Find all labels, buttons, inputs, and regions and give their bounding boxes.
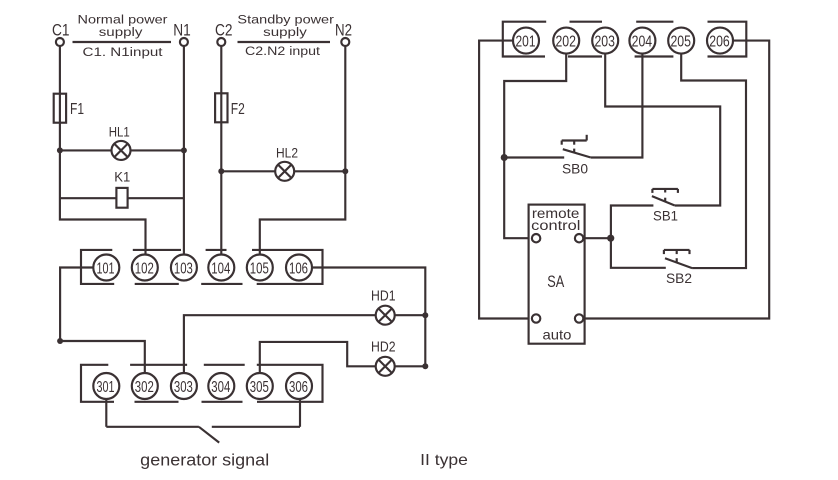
wire N2 drop	[260, 46, 346, 255]
generator signal pointer	[199, 427, 219, 443]
junction dot C2-HL2	[218, 168, 224, 174]
svg-text:HD1: HD1	[371, 288, 396, 304]
wire 101 to 302	[60, 268, 145, 374]
svg-text:103: 103	[174, 260, 193, 277]
junction dot N1-HL1	[181, 147, 187, 153]
terminal 306	[286, 373, 312, 399]
generator signal bracket left	[106, 426, 199, 428]
wire 203 to SB1 right	[605, 54, 720, 206]
svg-text:206: 206	[709, 34, 730, 51]
wire SB2 left	[611, 238, 666, 268]
junction dot N2-HL2	[342, 168, 348, 174]
svg-text:102: 102	[135, 260, 154, 277]
svg-text:N1: N1	[173, 22, 191, 40]
junction dot SA-SB1	[607, 235, 614, 242]
svg-text:305: 305	[250, 379, 269, 396]
wire 301 drop	[105, 399, 107, 427]
wire HL2 branch	[221, 170, 345, 172]
svg-text:N2: N2	[335, 22, 352, 40]
SA terminal remote-right	[575, 234, 583, 242]
wire SB0 right to 204	[591, 54, 643, 158]
terminal 201	[513, 28, 539, 54]
Standby power supply annotation	[237, 12, 334, 58]
svg-text:control: control	[531, 218, 580, 233]
svg-text:SB2: SB2	[666, 270, 692, 286]
svg-text:K1: K1	[114, 168, 130, 184]
wire 206 to SA auto-right	[583, 41, 769, 319]
pushbutton SB0	[562, 135, 591, 177]
svg-text:204: 204	[632, 34, 653, 51]
svg-text:supply: supply	[99, 25, 144, 39]
svg-text:101: 101	[97, 260, 115, 277]
junction dot C1-HL1	[57, 147, 63, 153]
terminal 101	[93, 255, 119, 281]
svg-text:202: 202	[555, 34, 576, 51]
lamp HD2	[371, 340, 396, 376]
terminal 304	[208, 373, 234, 399]
terminal 303	[171, 373, 197, 399]
selector switch SA box	[529, 205, 585, 344]
wire 305 to HD2	[260, 342, 426, 374]
terminal 103	[171, 255, 197, 281]
terminal 102	[132, 255, 158, 281]
svg-text:auto: auto	[543, 327, 572, 343]
junction dot HD2 riser	[422, 363, 428, 369]
lamp HD1	[371, 288, 396, 324]
terminal strip 201-206 frame	[503, 22, 747, 57]
generator signal bracket right	[212, 426, 300, 428]
relay coil K1	[114, 168, 130, 207]
pushbutton SB2	[664, 250, 692, 286]
wire 202 to SA remote	[504, 54, 566, 239]
svg-text:205: 205	[670, 34, 691, 51]
svg-text:302: 302	[135, 379, 154, 396]
wire 303 to HD1	[184, 315, 425, 373]
SA terminal auto-left	[532, 314, 540, 322]
svg-text:304: 304	[211, 379, 230, 396]
wire 106 to HD riser	[312, 268, 425, 367]
lamp HL2	[275, 144, 298, 181]
wire N1 drop	[183, 46, 185, 255]
terminal 104	[208, 255, 234, 281]
wire HL1 branch	[60, 149, 184, 151]
svg-text:supply: supply	[263, 25, 308, 39]
wire 306 drop	[299, 399, 301, 427]
svg-text:201: 201	[516, 34, 536, 51]
svg-text:C2: C2	[215, 22, 233, 40]
terminal 305	[247, 373, 273, 399]
terminal 202	[553, 28, 579, 54]
svg-text:HL2: HL2	[276, 144, 298, 160]
terminal C1	[56, 38, 64, 46]
wire SA remote-right to dot	[583, 237, 611, 239]
terminal strip 101-106 frame	[81, 250, 323, 284]
wire SB0 left	[504, 156, 564, 158]
svg-text:105: 105	[250, 260, 269, 277]
lamp HL1	[109, 123, 131, 160]
svg-text:generator signal: generator signal	[140, 451, 269, 469]
fuse F2	[215, 93, 227, 122]
terminal 203	[592, 28, 618, 54]
fuse F1	[54, 94, 66, 123]
wire SB2 right to 205	[681, 54, 746, 269]
svg-text:306: 306	[289, 379, 308, 396]
terminal 204	[629, 28, 655, 54]
wire K1 branch	[60, 197, 184, 199]
terminal 302	[132, 373, 158, 399]
svg-text:F1: F1	[70, 101, 84, 118]
terminal 301	[93, 373, 119, 399]
terminal 105	[247, 255, 273, 281]
terminal 206	[707, 28, 733, 54]
svg-text:203: 203	[594, 34, 615, 51]
wire SB1 left	[611, 206, 654, 239]
svg-text:104: 104	[211, 260, 230, 277]
terminal strip 301-306 frame	[81, 365, 323, 402]
svg-text:HL1: HL1	[109, 123, 130, 139]
svg-text:SB1: SB1	[653, 208, 678, 224]
junction dot SB0	[501, 154, 508, 161]
svg-text:C2.N2 input: C2.N2 input	[245, 44, 321, 58]
terminal 205	[668, 28, 694, 54]
pushbutton SB1	[652, 189, 678, 224]
svg-text:301: 301	[97, 379, 115, 396]
junction dot 101 wire corner	[57, 338, 63, 344]
wire 201 to SA auto	[479, 41, 532, 319]
svg-text:SB0: SB0	[562, 160, 588, 176]
svg-text:C1. N1input: C1. N1input	[83, 45, 164, 59]
svg-text:106: 106	[289, 260, 308, 277]
SA terminal auto-right	[575, 314, 583, 322]
terminal N1	[180, 38, 188, 46]
SA terminal remote-left	[532, 234, 540, 242]
terminal 106	[286, 255, 312, 281]
svg-text:HD2: HD2	[371, 340, 396, 356]
svg-text:F2: F2	[231, 101, 245, 118]
wire C2 drop	[220, 46, 222, 255]
terminal N2	[341, 38, 349, 46]
svg-text:303: 303	[174, 379, 193, 396]
junction dot HD1 riser	[422, 312, 428, 318]
Normal power supply annotation	[73, 12, 172, 59]
wire C1 drop	[60, 46, 146, 255]
terminal C2	[217, 38, 225, 46]
svg-text:II type: II type	[420, 452, 468, 469]
svg-text:SA: SA	[547, 273, 564, 291]
